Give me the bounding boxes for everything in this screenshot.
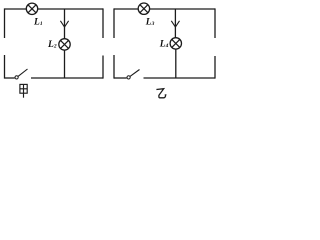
svg-text:L4: L4 <box>159 40 169 50</box>
svg-text:L3: L3 <box>145 18 155 28</box>
svg-text:L1: L1 <box>33 18 43 28</box>
svg-text:L2: L2 <box>47 40 57 50</box>
